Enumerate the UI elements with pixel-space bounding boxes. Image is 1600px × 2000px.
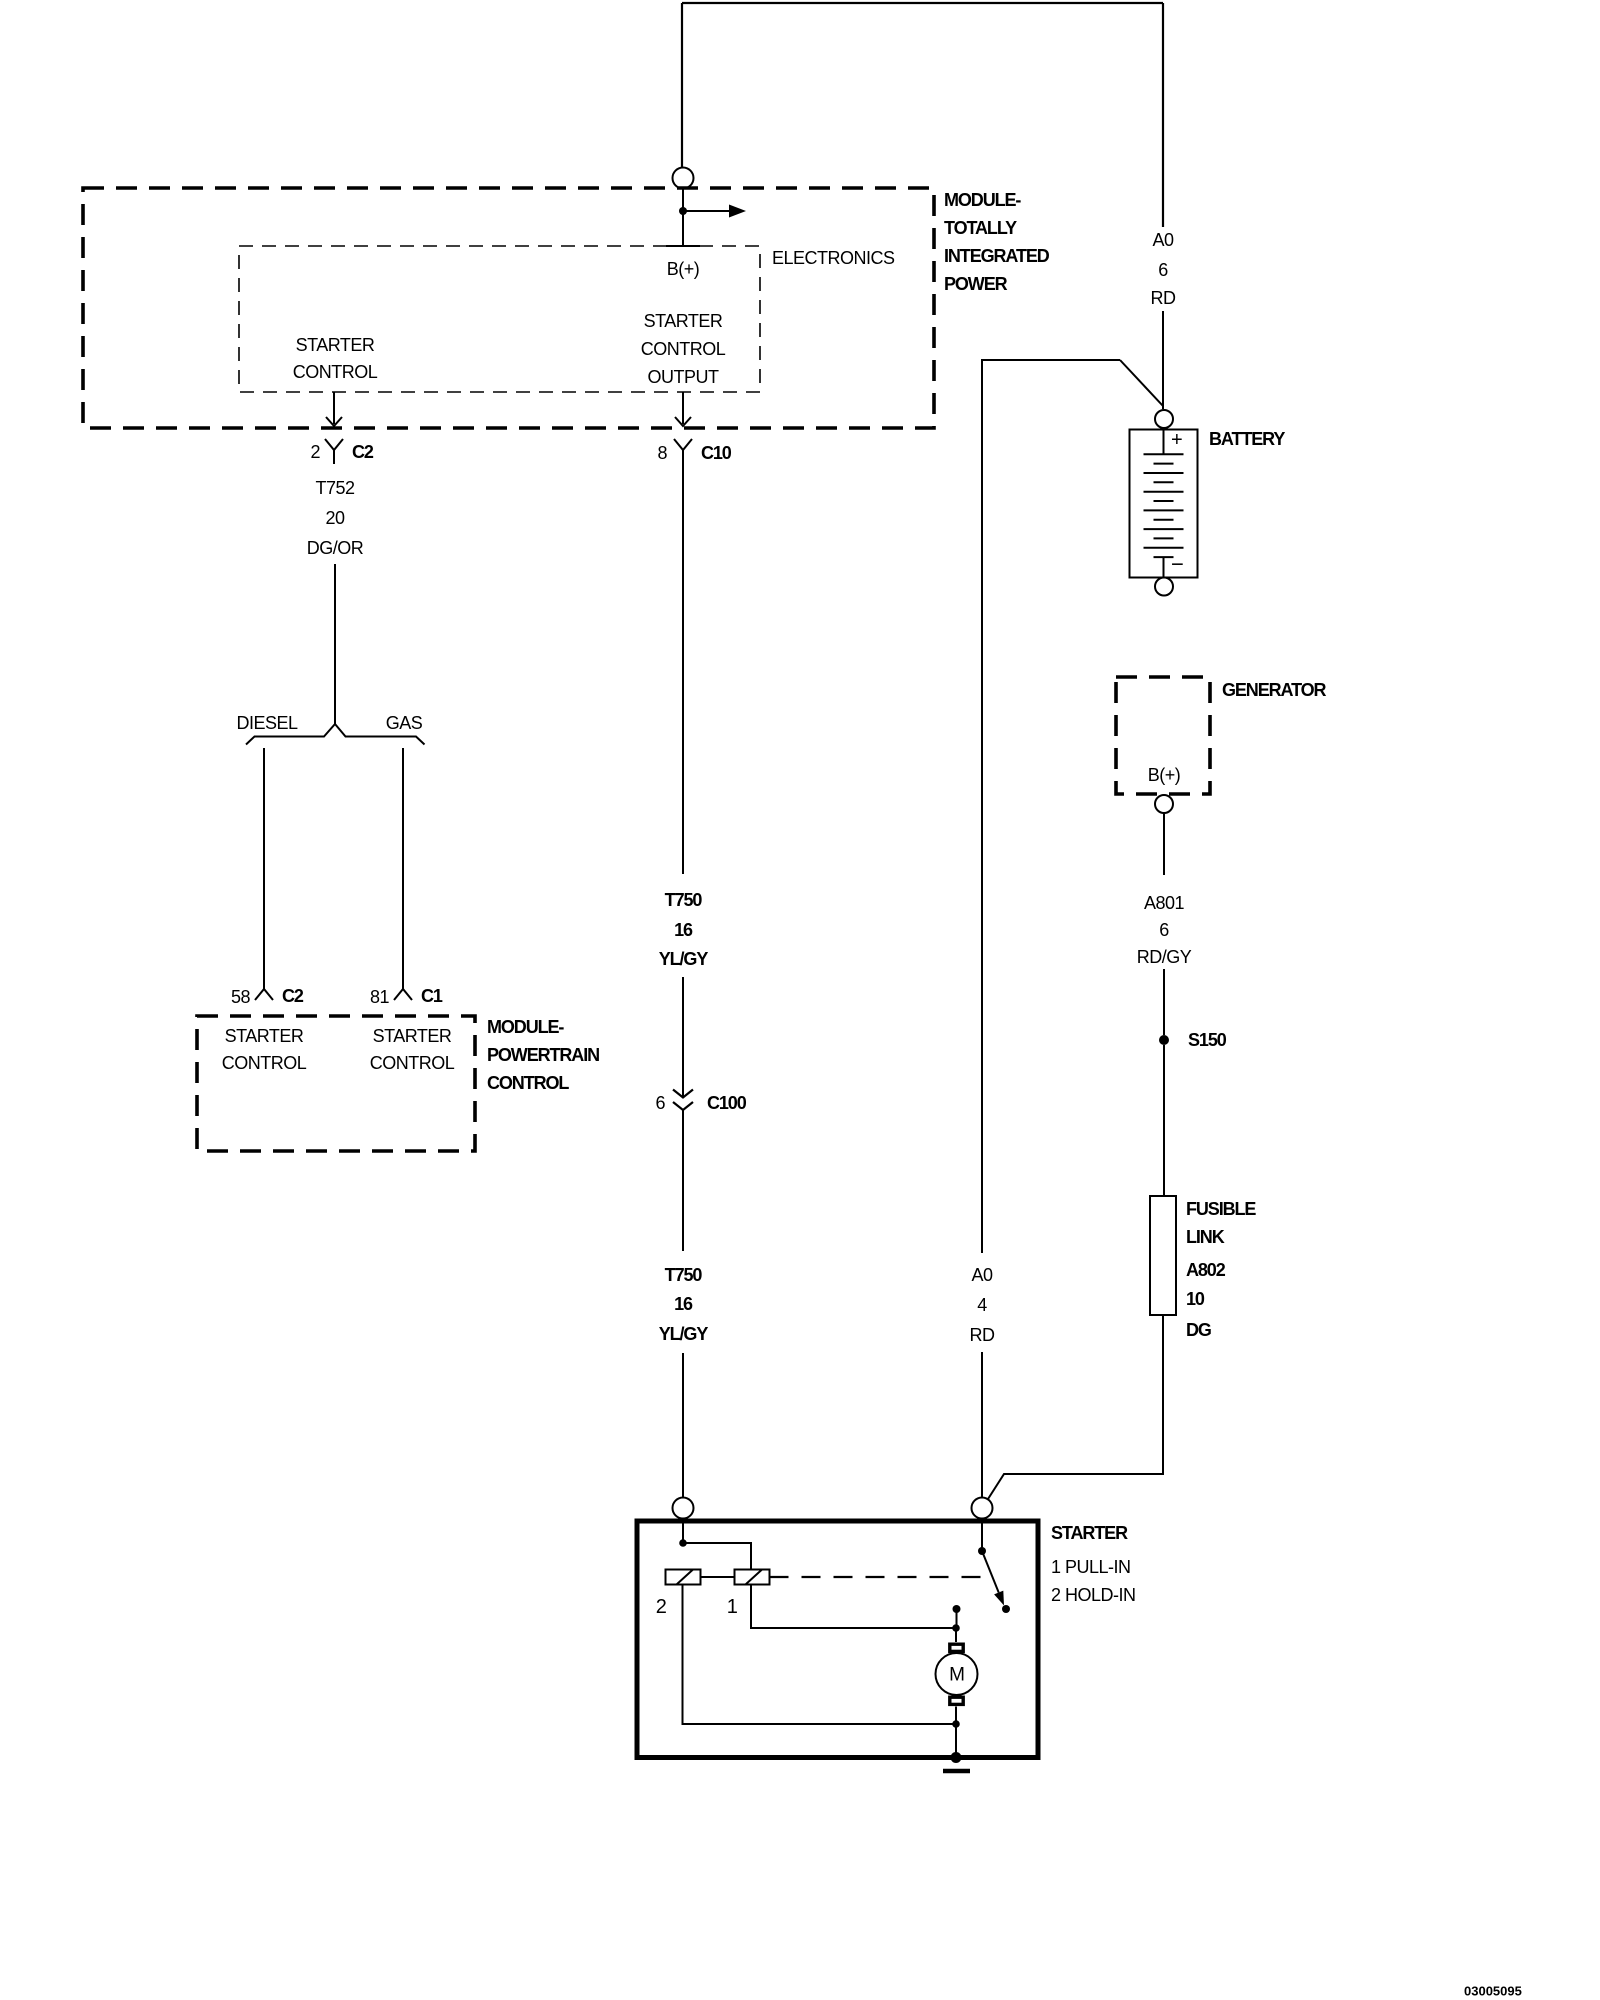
svg-text:DG/OR: DG/OR bbox=[307, 538, 364, 558]
svg-text:RD: RD bbox=[1151, 288, 1176, 308]
svg-text:CONTROL: CONTROL bbox=[222, 1053, 307, 1073]
wire A0 4 RD lower segment bbox=[981, 1352, 983, 1497]
wire down to splice bbox=[1163, 969, 1165, 1035]
svg-text:03005095: 03005095 bbox=[1464, 1984, 1522, 1999]
pin arrow out of TIPM (starter control pin 2) bbox=[326, 392, 342, 426]
generator dashed box bbox=[1116, 677, 1210, 794]
terminal tick at electronics block entry bbox=[666, 245, 700, 247]
svg-text:POWERTRAIN: POWERTRAIN bbox=[487, 1045, 599, 1065]
motor body M bbox=[936, 1653, 978, 1695]
wire below C100 bbox=[682, 1110, 684, 1251]
connector C2 pin 58 symbol bbox=[255, 984, 273, 1000]
svg-text:POWER: POWER bbox=[944, 274, 1008, 294]
svg-text:10: 10 bbox=[1186, 1289, 1205, 1309]
svg-text:A801: A801 bbox=[1144, 893, 1185, 913]
svg-text:STARTER: STARTER bbox=[225, 1026, 304, 1046]
svg-text:−: − bbox=[1171, 552, 1183, 577]
svg-text:STARTER: STARTER bbox=[644, 311, 723, 331]
svg-text:STARTER: STARTER bbox=[1051, 1523, 1128, 1543]
svg-text:CONTROL: CONTROL bbox=[641, 339, 726, 359]
svg-text:CONTROL: CONTROL bbox=[293, 362, 378, 382]
module powertrain control dashed box bbox=[197, 1016, 475, 1151]
ground node dot on case bbox=[951, 1752, 962, 1763]
node dot at motor top junction bbox=[952, 1624, 960, 1632]
wire splice to fusible link bbox=[1163, 1045, 1165, 1196]
wire pull-in coil to motor top bbox=[751, 1585, 956, 1629]
splice S150 bbox=[1159, 1035, 1169, 1045]
svg-text:INTEGRATED: INTEGRATED bbox=[944, 246, 1050, 266]
node junction dot below B(+) bbox=[679, 207, 687, 215]
feed continuation arrow (points right) bbox=[683, 210, 729, 212]
svg-text:1 PULL-IN: 1 PULL-IN bbox=[1051, 1557, 1131, 1577]
wire starter control output (upper run) bbox=[682, 463, 684, 874]
linkage dashed line to contact bbox=[770, 1576, 989, 1578]
svg-text:4: 4 bbox=[977, 1295, 987, 1315]
svg-text:GAS: GAS bbox=[386, 713, 423, 733]
wire from generator bbox=[1163, 813, 1165, 875]
svg-text:C2: C2 bbox=[282, 986, 304, 1006]
svg-text:S150: S150 bbox=[1188, 1030, 1227, 1050]
wire vertical drop to TIPM B(+) bbox=[681, 3, 683, 167]
motor bottom brush bbox=[950, 1697, 963, 1704]
svg-text:OUTPUT: OUTPUT bbox=[648, 367, 720, 387]
svg-text:C2: C2 bbox=[352, 442, 374, 462]
svg-text:81: 81 bbox=[370, 987, 390, 1007]
wire contact to motor junction bbox=[956, 1609, 958, 1628]
wire diesel branch bbox=[263, 748, 265, 984]
switch fixed contact dot bbox=[1002, 1605, 1010, 1613]
ground symbol bbox=[943, 1769, 970, 1774]
svg-text:STARTER: STARTER bbox=[296, 335, 375, 355]
svg-text:YL/GY: YL/GY bbox=[659, 949, 709, 969]
svg-text:MODULE-: MODULE- bbox=[487, 1017, 564, 1037]
svg-text:2 HOLD-IN: 2 HOLD-IN bbox=[1051, 1585, 1136, 1605]
node dot at motor bottom junction bbox=[952, 1720, 960, 1728]
wire hold-in coil to motor bottom bbox=[683, 1585, 957, 1725]
svg-text:C10: C10 bbox=[701, 443, 732, 463]
pin arrow out of TIPM (starter control output pin 8) bbox=[675, 392, 691, 426]
svg-text:LINK: LINK bbox=[1186, 1227, 1225, 1247]
svg-text:6: 6 bbox=[1158, 260, 1168, 280]
wire from B(+) circle into electronics block bbox=[682, 189, 684, 247]
battery positive terminal circle bbox=[1155, 410, 1173, 428]
wire motor junction to brush bbox=[955, 1628, 957, 1642]
svg-text:T750: T750 bbox=[665, 1265, 703, 1285]
battery negative stub bbox=[1163, 557, 1165, 577]
wire vertical drop to battery (A0 6 RD upper segment) bbox=[1162, 3, 1164, 227]
svg-text:58: 58 bbox=[231, 987, 251, 1007]
svg-text:A802: A802 bbox=[1186, 1260, 1226, 1280]
connector circle at TIPM B(+) terminal bbox=[673, 168, 694, 189]
electronics inner dashed box bbox=[239, 246, 760, 392]
wire bottom brush to ground bbox=[955, 1707, 957, 1758]
wire fusible link to starter terminal bbox=[988, 1315, 1163, 1499]
svg-text:C1: C1 bbox=[421, 986, 443, 1006]
switch pivot dot bbox=[978, 1547, 986, 1555]
svg-text:T750: T750 bbox=[665, 890, 703, 910]
svg-text:M: M bbox=[949, 1665, 965, 1686]
wire T752 down to option split bbox=[334, 564, 336, 724]
starter case box bbox=[637, 1521, 1038, 1758]
hold-in coil (2) bbox=[666, 1570, 701, 1585]
svg-text:T752: T752 bbox=[315, 478, 355, 498]
svg-text:16: 16 bbox=[674, 1294, 693, 1314]
svg-text:A0: A0 bbox=[971, 1265, 993, 1285]
svg-text:6: 6 bbox=[1159, 920, 1169, 940]
battery positive stub bbox=[1163, 428, 1165, 454]
wire between coils bbox=[701, 1576, 735, 1578]
svg-text:RD/GY: RD/GY bbox=[1137, 947, 1192, 967]
node dot control branch bbox=[679, 1539, 687, 1547]
svg-text:16: 16 bbox=[674, 920, 693, 940]
svg-text:YL/GY: YL/GY bbox=[659, 1324, 709, 1344]
battery case bbox=[1130, 430, 1198, 578]
svg-text:A0: A0 bbox=[1152, 230, 1174, 250]
svg-text:MODULE-: MODULE- bbox=[944, 190, 1021, 210]
svg-text:2: 2 bbox=[310, 442, 320, 462]
svg-text:RD: RD bbox=[970, 1325, 995, 1345]
option split symbol (DIESEL / GAS) bbox=[246, 724, 425, 745]
svg-text:8: 8 bbox=[657, 443, 667, 463]
connector C100 pin 6 symbol (double chevron) bbox=[673, 1090, 693, 1111]
svg-text:B(+): B(+) bbox=[1148, 765, 1181, 785]
svg-text:B(+): B(+) bbox=[667, 259, 700, 279]
generator B(+) terminal circle bbox=[1155, 795, 1173, 813]
svg-text:+: + bbox=[1171, 429, 1182, 451]
svg-text:DG: DG bbox=[1186, 1320, 1211, 1340]
wire A0 4 RD corner from battery junction bbox=[982, 360, 1120, 1253]
svg-text:ELECTRONICS: ELECTRONICS bbox=[772, 248, 895, 268]
svg-text:GENERATOR: GENERATOR bbox=[1222, 680, 1327, 700]
motor top brush bbox=[950, 1644, 963, 1651]
switch moving arm bbox=[982, 1551, 999, 1593]
svg-text:CONTROL: CONTROL bbox=[370, 1053, 455, 1073]
svg-text:FUSIBLE: FUSIBLE bbox=[1186, 1199, 1256, 1219]
battery negative terminal circle bbox=[1155, 578, 1173, 596]
pull-in coil (1) bbox=[735, 1570, 770, 1585]
wire control terminal into coils bbox=[682, 1519, 684, 1544]
motor feed contact dot bbox=[953, 1605, 961, 1613]
connector C10 pin 8 symbol bbox=[674, 439, 692, 463]
wire down to starter solenoid terminal bbox=[682, 1353, 684, 1497]
svg-text:1: 1 bbox=[727, 1596, 738, 1618]
module TIPM outer dashed box bbox=[83, 188, 934, 428]
connector C2 pin 2 symbol bbox=[325, 439, 343, 464]
svg-text:CONTROL: CONTROL bbox=[487, 1073, 569, 1093]
svg-text:2: 2 bbox=[656, 1596, 667, 1618]
fusible link element bbox=[1150, 1196, 1176, 1315]
wire gas branch bbox=[402, 748, 404, 984]
starter battery terminal circle bbox=[972, 1498, 993, 1519]
wire down to C100 bbox=[682, 977, 684, 1097]
svg-text:BATTERY: BATTERY bbox=[1209, 429, 1285, 449]
svg-text:TOTALLY: TOTALLY bbox=[944, 218, 1017, 238]
svg-text:DIESEL: DIESEL bbox=[236, 713, 298, 733]
svg-text:6: 6 bbox=[655, 1093, 665, 1113]
wire A0 6 RD lower segment bbox=[1162, 311, 1164, 409]
svg-text:STARTER: STARTER bbox=[373, 1026, 452, 1046]
svg-text:20: 20 bbox=[325, 508, 345, 528]
svg-text:C100: C100 bbox=[707, 1093, 747, 1113]
wire battery terminal to switch pivot bbox=[981, 1519, 983, 1552]
wire branch to pull-in coil bbox=[683, 1543, 751, 1570]
connector C1 pin 81 symbol bbox=[394, 984, 412, 1000]
starter solenoid terminal circle (control) bbox=[673, 1498, 694, 1519]
wire diagonal into battery positive bbox=[1120, 360, 1163, 406]
wire top horizontal bus (battery feed over the top) bbox=[682, 2, 1163, 4]
battery plates bbox=[1144, 454, 1184, 557]
